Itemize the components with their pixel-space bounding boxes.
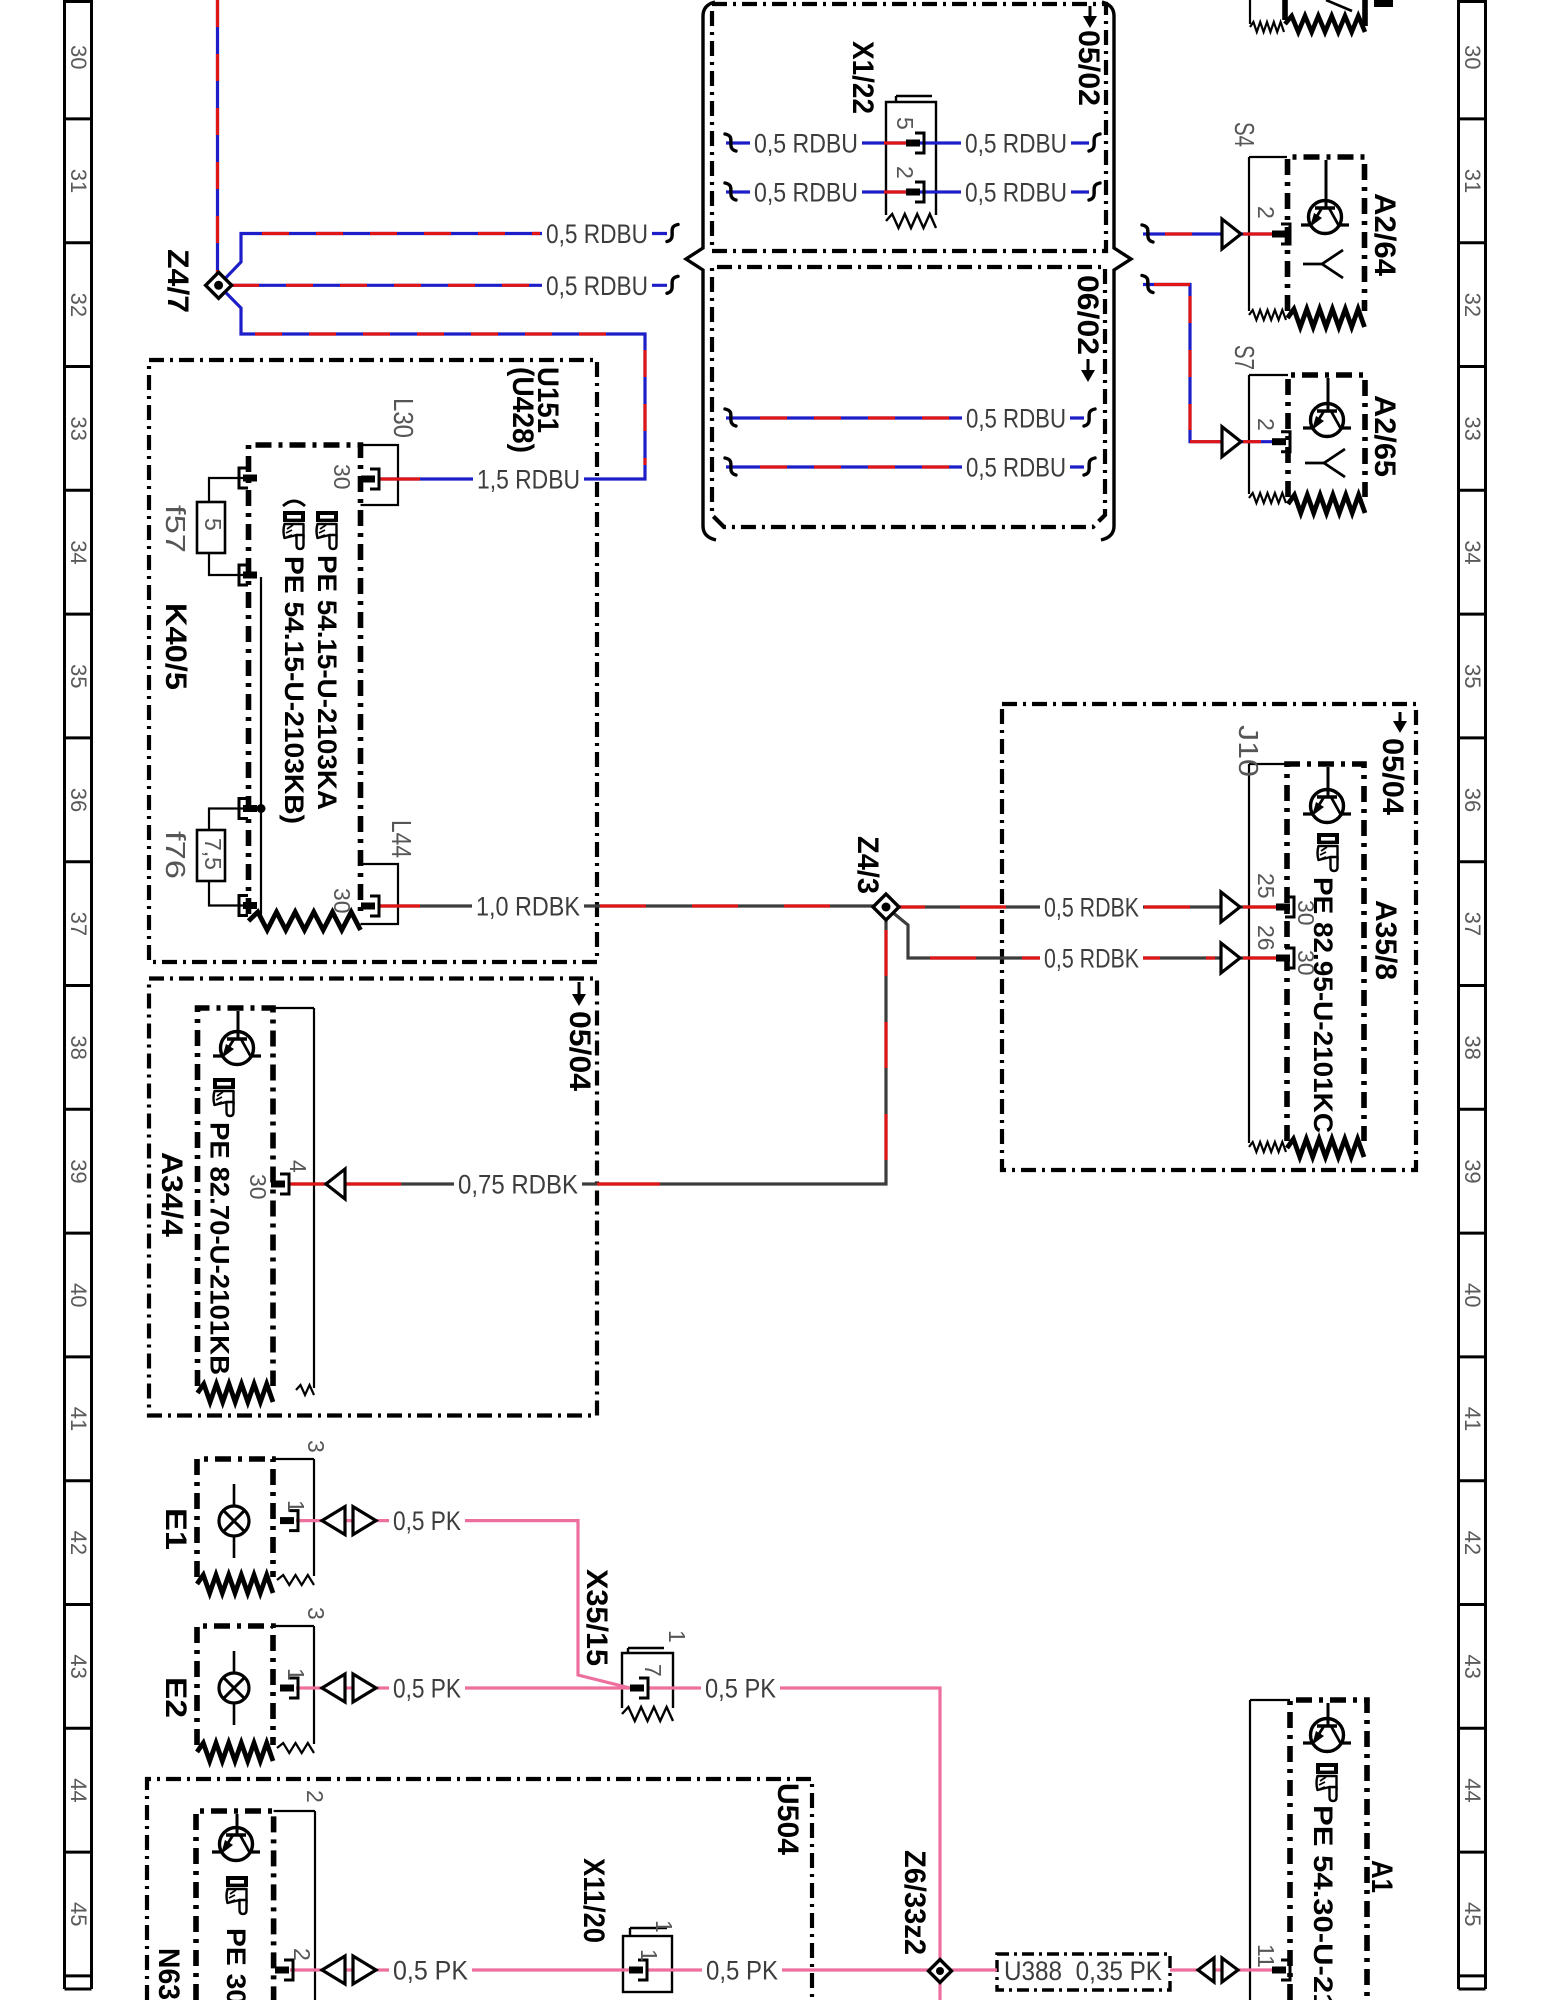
svg-text:0,5 PK: 0,5 PK xyxy=(393,1956,468,1986)
svg-text:37: 37 xyxy=(1460,912,1485,936)
svg-text:06/02: 06/02 xyxy=(1071,275,1104,355)
svg-text:30: 30 xyxy=(329,888,355,914)
svg-text:1: 1 xyxy=(283,1500,309,1513)
svg-text:33: 33 xyxy=(1460,416,1485,440)
svg-text:1,5 RDBU: 1,5 RDBU xyxy=(477,465,580,495)
svg-text:J10: J10 xyxy=(1233,725,1264,777)
svg-text:(U428): (U428) xyxy=(506,367,539,453)
svg-text:A2/65: A2/65 xyxy=(1368,395,1401,477)
svg-text:30: 30 xyxy=(1460,45,1485,69)
svg-text:A2/64: A2/64 xyxy=(1368,193,1401,276)
svg-text:05/04: 05/04 xyxy=(1376,738,1409,815)
svg-text:2: 2 xyxy=(1253,418,1279,431)
svg-text:0,5 RDBU: 0,5 RDBU xyxy=(965,129,1067,159)
svg-text:0,5 RDBK: 0,5 RDBK xyxy=(1044,893,1139,923)
svg-text:A1: A1 xyxy=(1365,1860,1398,1893)
svg-text:4: 4 xyxy=(285,1160,311,1173)
svg-text:38: 38 xyxy=(1460,1035,1485,1059)
svg-text:0,5 RDBU: 0,5 RDBU xyxy=(546,219,648,249)
svg-text:PE 30-U-2103KA: PE 30-U-2103KA xyxy=(221,1928,251,2000)
svg-text:43: 43 xyxy=(1460,1654,1485,1678)
svg-text:2: 2 xyxy=(892,166,918,179)
svg-text:33: 33 xyxy=(66,416,91,440)
svg-text:43: 43 xyxy=(66,1654,91,1678)
svg-text:5: 5 xyxy=(200,518,226,531)
svg-text:0,5 RDBU: 0,5 RDBU xyxy=(965,178,1067,208)
svg-text:PE 54.30-U-2101: PE 54.30-U-2101 xyxy=(1308,1805,1338,2000)
svg-text:40: 40 xyxy=(66,1283,91,1307)
svg-text:30: 30 xyxy=(66,45,91,69)
svg-text:L30: L30 xyxy=(388,398,419,438)
svg-text:31: 31 xyxy=(1460,169,1485,193)
svg-text:38: 38 xyxy=(66,1035,91,1059)
svg-text:30: 30 xyxy=(1293,900,1319,926)
svg-text:S7: S7 xyxy=(1229,345,1260,370)
svg-text:26: 26 xyxy=(1253,925,1279,951)
svg-text:42: 42 xyxy=(1460,1531,1485,1555)
svg-text:44: 44 xyxy=(66,1778,91,1802)
svg-text:35: 35 xyxy=(66,664,91,688)
svg-text:7: 7 xyxy=(640,1664,666,1677)
svg-text:E2: E2 xyxy=(159,1677,192,1718)
svg-text:0,5 RDBU: 0,5 RDBU xyxy=(966,404,1066,434)
svg-text:34: 34 xyxy=(1460,540,1485,564)
svg-text:A35/8: A35/8 xyxy=(1369,900,1402,980)
svg-text:05/02: 05/02 xyxy=(1072,30,1105,106)
svg-text:30: 30 xyxy=(245,1174,271,1200)
svg-text:X1/22: X1/22 xyxy=(846,41,879,114)
svg-text:0,5 RDBU: 0,5 RDBU xyxy=(754,178,858,208)
svg-text:U504: U504 xyxy=(771,1783,804,1855)
svg-text:39: 39 xyxy=(66,1159,91,1183)
svg-text:11: 11 xyxy=(1253,1944,1279,1968)
svg-text:45: 45 xyxy=(66,1902,91,1926)
svg-text:Z6/33z2: Z6/33z2 xyxy=(898,1850,931,1955)
svg-text:0,5 PK: 0,5 PK xyxy=(706,1956,778,1986)
svg-text:32: 32 xyxy=(1460,293,1485,317)
svg-text:45: 45 xyxy=(1460,1902,1485,1926)
svg-text:1: 1 xyxy=(636,1949,662,1962)
svg-text:30: 30 xyxy=(1293,950,1319,976)
svg-text:S4: S4 xyxy=(1229,122,1260,147)
svg-text:L44: L44 xyxy=(386,820,417,858)
svg-text:36: 36 xyxy=(1460,788,1485,812)
svg-text:0,5 PK: 0,5 PK xyxy=(393,1674,461,1704)
svg-text:0,5 RDBU: 0,5 RDBU xyxy=(754,129,858,159)
svg-text:1: 1 xyxy=(651,1920,677,1933)
svg-text:3: 3 xyxy=(303,1440,329,1453)
svg-text:0,5 RDBK: 0,5 RDBK xyxy=(1044,944,1139,974)
svg-text:1: 1 xyxy=(664,1630,690,1643)
svg-text:2: 2 xyxy=(302,1790,328,1803)
svg-text:PE 54.15-U-2103KA: PE 54.15-U-2103KA xyxy=(312,555,342,810)
svg-text:2: 2 xyxy=(289,1948,315,1961)
svg-text:39: 39 xyxy=(1460,1159,1485,1183)
svg-text:A34/4: A34/4 xyxy=(155,1152,188,1237)
svg-text:7,5: 7,5 xyxy=(200,838,226,870)
svg-text:2: 2 xyxy=(1253,206,1279,219)
svg-text:5: 5 xyxy=(892,117,918,130)
svg-text:N63: N63 xyxy=(152,1948,185,2000)
svg-text:0,5 PK: 0,5 PK xyxy=(393,1506,461,1536)
svg-text:0,5 RDBU: 0,5 RDBU xyxy=(546,271,648,301)
svg-text:U388 0,35 PK: U388 0,35 PK xyxy=(1004,1956,1162,1986)
svg-text:PE 82.70-U-2101KB: PE 82.70-U-2101KB xyxy=(205,1122,235,1375)
svg-text:1: 1 xyxy=(283,1668,309,1681)
svg-text:41: 41 xyxy=(66,1407,91,1431)
svg-text:0,5 PK: 0,5 PK xyxy=(705,1674,776,1704)
svg-text:42: 42 xyxy=(66,1531,91,1555)
svg-text:f57: f57 xyxy=(160,505,191,553)
svg-text:30: 30 xyxy=(329,464,355,490)
svg-text:34: 34 xyxy=(66,540,91,564)
svg-text:f76: f76 xyxy=(160,831,191,879)
svg-text:41: 41 xyxy=(1460,1407,1485,1431)
svg-text:25: 25 xyxy=(1253,873,1279,899)
svg-text:1,0 RDBK: 1,0 RDBK xyxy=(476,892,580,922)
svg-text:0,5 RDBU: 0,5 RDBU xyxy=(966,453,1066,483)
svg-text:0,75 RDBK: 0,75 RDBK xyxy=(458,1170,578,1200)
svg-text:05/04: 05/04 xyxy=(563,1011,596,1091)
svg-text:Z4/3: Z4/3 xyxy=(851,836,884,894)
svg-text:Z4/7: Z4/7 xyxy=(161,249,194,313)
svg-text:37: 37 xyxy=(66,912,91,936)
svg-text:PE 54.15-U-2103KB): PE 54.15-U-2103KB) xyxy=(279,556,309,824)
svg-text:40: 40 xyxy=(1460,1283,1485,1307)
svg-text:E1: E1 xyxy=(159,1508,192,1550)
svg-text:3: 3 xyxy=(303,1607,329,1620)
svg-text:35: 35 xyxy=(1460,664,1485,688)
svg-text:X35/15: X35/15 xyxy=(580,1569,613,1666)
svg-text:36: 36 xyxy=(66,788,91,812)
svg-text:31: 31 xyxy=(66,169,91,193)
svg-text:44: 44 xyxy=(1460,1778,1485,1802)
svg-text:32: 32 xyxy=(66,293,91,317)
svg-text:X11/20: X11/20 xyxy=(577,1858,610,1943)
svg-text:K40/5: K40/5 xyxy=(159,603,192,690)
